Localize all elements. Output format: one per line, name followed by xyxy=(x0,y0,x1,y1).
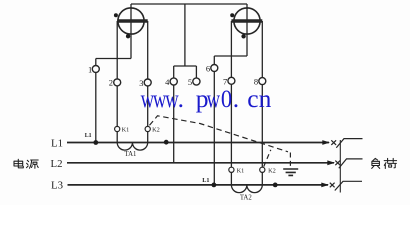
wire K2 stub to L1 xyxy=(147,132,149,143)
cross mark L3 xyxy=(330,183,335,188)
polarity dot element2 upper xyxy=(230,13,234,17)
svg-text:1: 1 xyxy=(88,64,92,74)
label dianyuan char dian xyxy=(14,159,23,168)
svg-text:K2: K2 xyxy=(152,127,160,134)
wire top voltage rail xyxy=(131,3,247,5)
wire terminal1 to L1 xyxy=(95,73,97,143)
svg-text:K1: K1 xyxy=(122,127,130,134)
junction node on L3 right xyxy=(273,183,278,188)
svg-text:L1: L1 xyxy=(202,177,209,184)
svg-text:TA2: TA2 xyxy=(240,194,253,201)
terminal 5 xyxy=(193,78,200,85)
cross mark L1 xyxy=(331,140,336,145)
wire terminal6 upper lead xyxy=(213,56,215,65)
svg-text:n: n xyxy=(259,84,272,113)
svg-text:L3: L3 xyxy=(51,180,63,192)
wire element1 bar-right to terminal 3 xyxy=(147,21,149,79)
terminal 2 xyxy=(114,79,121,86)
meter element U2 current coil bar xyxy=(231,19,262,22)
arrow L1 to load xyxy=(322,140,330,145)
svg-text:.: . xyxy=(178,84,184,113)
label dianyuan char yuan xyxy=(27,160,39,168)
wire terminal3 to K2 xyxy=(147,86,149,126)
line L1 xyxy=(67,142,329,144)
meter element U1 current coil bar xyxy=(117,19,148,22)
svg-text:K1: K1 xyxy=(237,168,245,175)
svg-text:0: 0 xyxy=(221,86,232,114)
meter element U2 voltage+current coil circle xyxy=(234,8,260,34)
label fuhe char fu xyxy=(372,158,380,168)
wire terminal6 to L3 xyxy=(213,72,215,185)
terminal 1 xyxy=(92,66,99,73)
svg-text:2: 2 xyxy=(109,78,113,88)
svg-text:L1: L1 xyxy=(51,137,63,149)
junction node L3-terminal6 xyxy=(212,183,217,188)
svg-text:c: c xyxy=(247,84,258,113)
wire element2 jog to terminal 6 xyxy=(214,55,247,57)
terminal 4 xyxy=(170,78,177,85)
arrow L3 to load xyxy=(321,183,329,188)
wire terminal7 to K1 of TA2 xyxy=(230,84,232,167)
meter element U1 voltage+current coil circle xyxy=(118,8,144,34)
wire K2 TA2 stub to L3 xyxy=(261,172,263,185)
dashed earth branch from K2 TA2 xyxy=(264,150,271,167)
wire mid voltage drop xyxy=(184,4,186,66)
terminal 7 xyxy=(228,77,235,84)
wire element1 voltage coil vertical xyxy=(130,4,132,59)
CT TA1 winding arcs xyxy=(117,143,148,151)
wire terminal8 to K2 of TA2 xyxy=(261,85,263,168)
svg-text:5: 5 xyxy=(188,77,192,87)
ground symbol xyxy=(283,169,298,175)
CT TA2 terminal K2 xyxy=(260,167,265,172)
svg-text:L2: L2 xyxy=(51,158,63,170)
terminal 6 xyxy=(211,65,218,72)
polarity dot element1 upper xyxy=(114,13,118,17)
polarity dot element2 lower xyxy=(241,34,245,38)
svg-text:w: w xyxy=(207,84,221,113)
wire K1 TA2 stub to L3 xyxy=(230,172,232,185)
wire element2 voltage coil vertical xyxy=(246,4,248,56)
wire terminal1 upper lead xyxy=(95,59,97,66)
switch blade L3 xyxy=(335,181,362,190)
wire terminal2 to K1 xyxy=(116,86,118,127)
CT TA2 terminal K1 xyxy=(229,167,234,172)
wire element1 bar-left to terminal 2 xyxy=(116,21,118,79)
switch gang linkage xyxy=(339,140,341,193)
line L2 xyxy=(67,162,334,164)
dashed earth link from K2 TA1 to ground xyxy=(150,116,289,152)
line L3 xyxy=(68,184,329,186)
svg-text:K2: K2 xyxy=(268,168,276,175)
terminal 8 xyxy=(259,78,266,85)
switch blade L1 xyxy=(336,139,362,148)
terminal 3 xyxy=(144,79,151,86)
svg-text:.: . xyxy=(233,84,239,113)
svg-text:TA1: TA1 xyxy=(125,151,137,158)
cross mark L2 xyxy=(335,161,340,166)
wire element2 bar-right to terminal 8 xyxy=(261,21,263,78)
CT TA1 terminal K2 xyxy=(145,126,150,131)
CT TA1 terminal K1 xyxy=(115,126,120,131)
dashed earth link vertical at ground xyxy=(289,153,291,168)
polarity dot element1 lower xyxy=(126,34,130,38)
junction node on L1 near terminal4 lead xyxy=(164,140,169,145)
label fuhe char he xyxy=(384,158,396,168)
wire terminal4 to L2 xyxy=(173,85,175,163)
watermark www.pw0.cn xyxy=(141,84,272,113)
switch blade L2 xyxy=(339,159,363,168)
junction node L1-terminal1 xyxy=(93,140,98,145)
wire terminals 4-5 bridge xyxy=(174,66,197,78)
svg-text:L1: L1 xyxy=(85,133,92,139)
wire element2 bar-left to terminal 7 xyxy=(230,21,232,77)
arrow L2 to load xyxy=(327,160,335,165)
svg-text:6: 6 xyxy=(206,63,210,73)
wire K1 stub to L1 xyxy=(116,132,118,143)
wire element1 jog to terminal 1 xyxy=(96,58,131,60)
CT TA2 winding arcs xyxy=(231,185,262,193)
